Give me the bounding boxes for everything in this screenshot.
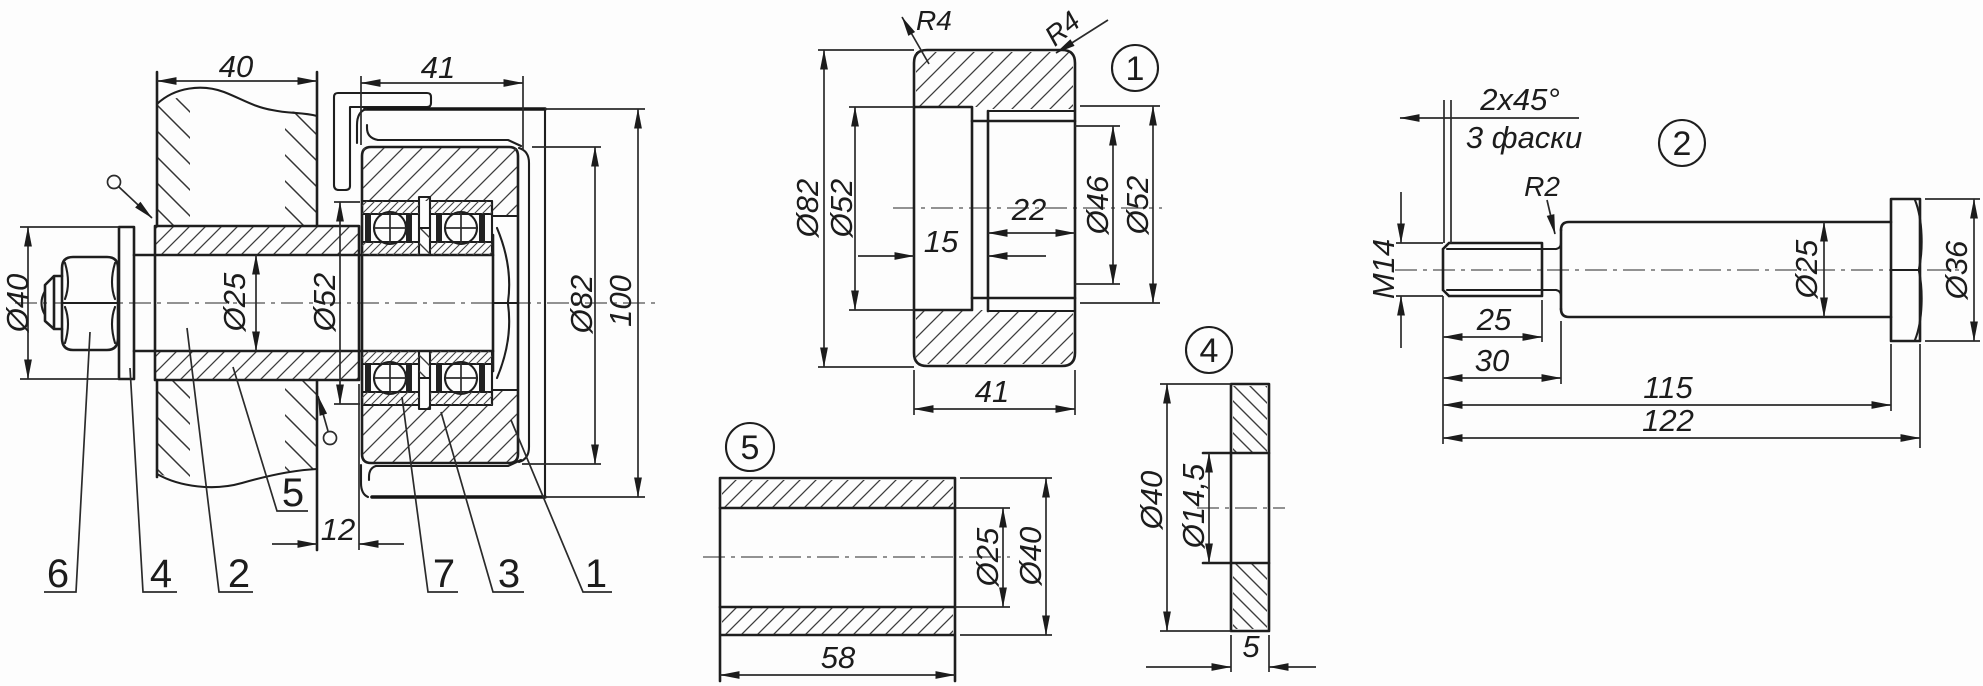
svg-text:25: 25: [1476, 302, 1512, 337]
svg-text:Ø25: Ø25: [217, 272, 252, 332]
bracket hook top left: [334, 93, 431, 190]
part2 thread section outline: [1443, 243, 1542, 296]
part4 dim 5: [1231, 635, 1269, 672]
bearing upper inner race hatch: [362, 242, 419, 255]
part1 dim dia52 left: [849, 107, 914, 310]
svg-text:Ø40: Ø40: [1013, 527, 1048, 587]
part2 dim 115: [1890, 344, 1892, 411]
svg-text:5: 5: [1242, 629, 1260, 664]
part2 dim M14: [1396, 243, 1443, 296]
svg-text:4: 4: [150, 552, 172, 596]
bearing lower inner race hatch: [362, 351, 419, 364]
svg-text:Ø40: Ø40: [0, 274, 35, 334]
part2 shaft outline: [1561, 222, 1891, 317]
nut item6 chamfer arcs: [65, 263, 115, 343]
svg-text:Ø46: Ø46: [1080, 175, 1115, 235]
centerline assembly: [15, 302, 655, 304]
part5 bushing hatch top strip: [722, 480, 953, 508]
svg-text:40: 40: [219, 49, 253, 84]
svg-text:2x45°: 2x45°: [1479, 82, 1560, 117]
bearing lower outer race hatch: [362, 392, 419, 405]
surface mark circle bottom: [324, 432, 337, 445]
dim 40 wall: [157, 80, 317, 82]
part1 R4 callout right: [1056, 20, 1108, 53]
part1 dim dia82: [818, 50, 914, 367]
svg-text:Ø52: Ø52: [307, 273, 342, 333]
wall left edge lower: [156, 380, 159, 477]
roller hatch bottom band: [363, 390, 517, 462]
svg-text:41: 41: [421, 50, 455, 85]
item label 4 washer: [130, 368, 177, 592]
svg-text:5: 5: [741, 429, 760, 467]
svg-text:Ø14,5: Ø14,5: [1176, 463, 1211, 549]
surface mark circle top: [108, 176, 121, 189]
part1 dim dia52 right: [1080, 106, 1160, 303]
part4 bore lines: [1203, 453, 1269, 563]
bracket bottom bend: [361, 465, 376, 497]
part2 thread minor lines: [1447, 249, 1556, 290]
bracket bottom flange top edge: [376, 460, 521, 466]
axle head mid line: [493, 302, 517, 304]
part2 dim dia36: [1925, 199, 1980, 341]
svg-text:3 фаски: 3 фаски: [1466, 120, 1582, 155]
bracket bottom flange bottom edge: [372, 495, 545, 499]
wall break line bottom: [157, 469, 317, 487]
part2 shoulder face: [1560, 230, 1563, 309]
nut item6 mid line: [62, 302, 118, 304]
svg-text:Ø82: Ø82: [790, 179, 825, 239]
svg-text:7: 7: [433, 552, 455, 596]
part2 balloon 2: [1659, 120, 1705, 166]
item label 3 bearing: [441, 412, 524, 592]
part1 roller body hatch bottom: [916, 310, 1073, 364]
part2 dim 30: [1560, 321, 1562, 384]
axle shaft lower line: [134, 350, 493, 353]
part5 dim 58: [720, 674, 955, 676]
wall lower section hatch right band: [285, 380, 317, 472]
wall left edge upper: [156, 72, 159, 226]
svg-text:Ø25: Ø25: [1789, 239, 1824, 299]
bearing upper seals: [365, 215, 371, 241]
part4 washer hatch bottom: [1233, 563, 1267, 629]
part5 bushing hatch bottom strip: [722, 607, 953, 635]
bearing lower outline: [362, 351, 492, 405]
wall upper section hatch right band: [285, 110, 317, 226]
bushing item5 outline: [155, 226, 359, 380]
bearing upper outer race hatch: [362, 201, 419, 214]
part2 dim 25: [1541, 300, 1543, 342]
svg-text:R2: R2: [1524, 171, 1560, 202]
roller outer rim right profile: [519, 148, 529, 462]
svg-text:Ø36: Ø36: [1939, 240, 1974, 300]
axle shaft upper line: [134, 254, 493, 257]
part2 dim 122: [1443, 296, 1920, 448]
part4 dim dia14.5: [1208, 453, 1210, 563]
part2 head mid line: [1891, 269, 1920, 271]
item label 2 axle: [187, 328, 253, 592]
svg-text:2: 2: [228, 552, 250, 596]
svg-text:58: 58: [821, 640, 856, 675]
part1 balloon 1: [1112, 45, 1158, 91]
part2 R2 callout: [1547, 200, 1555, 234]
part5 bore lines: [720, 508, 955, 607]
svg-text:6: 6: [47, 552, 69, 596]
svg-text:Ø25: Ø25: [970, 527, 1005, 587]
svg-text:Ø82: Ø82: [564, 275, 599, 335]
part4 washer outline: [1231, 384, 1269, 631]
wall break line top: [157, 88, 317, 116]
item label 7 spacer: [402, 397, 458, 592]
part2 neck fillet R2: [1556, 243, 1561, 296]
part5 centerline: [703, 556, 1010, 558]
part2 head outline: [1891, 199, 1920, 341]
wall right edge upper: [316, 72, 319, 226]
part2 centerline: [1395, 269, 1960, 271]
dim dia52 bearing: [334, 202, 360, 404]
dim dia40 left: [20, 227, 119, 379]
bracket top flange top edge: [365, 107, 545, 111]
item label 6 nut: [44, 332, 90, 592]
bearing upper outline: [362, 201, 492, 255]
dim 12 bushing protrusion: [358, 384, 360, 550]
svg-text:100: 100: [603, 275, 638, 327]
roller hatch top band: [363, 148, 517, 216]
part5 balloon 5: [726, 423, 774, 471]
part1 dim 41: [914, 370, 1075, 415]
svg-text:1: 1: [585, 552, 607, 596]
axle tip dome: [42, 291, 46, 315]
svg-text:115: 115: [1643, 370, 1693, 405]
part1 dim 22: [988, 232, 1075, 234]
bearing lower balls: [374, 362, 406, 394]
wall upper section hatch left band: [157, 94, 190, 226]
spacer item7 upper: [419, 228, 430, 255]
part5 dim dia40: [960, 478, 1052, 635]
svg-text:5: 5: [282, 471, 304, 515]
part1 dim dia46: [1075, 126, 1120, 284]
dim 100 bracket: [545, 109, 645, 497]
item label 1 roller: [511, 420, 612, 592]
dim 41 roller top: [361, 76, 523, 150]
washer item4: [119, 227, 134, 379]
part1 R4 callout left: [902, 17, 929, 64]
svg-text:M14: M14: [1366, 239, 1401, 299]
bracket top bend: [357, 109, 378, 143]
svg-text:41: 41: [975, 374, 1009, 409]
bearing upper balls: [374, 212, 406, 244]
part5 dim dia25: [955, 508, 1010, 607]
wall lower section hatch left band: [157, 380, 190, 481]
part1 bore dia52 lines: [914, 107, 972, 310]
item label 5 bushing: [233, 367, 308, 511]
roller item1 body outline: [362, 147, 518, 463]
axle head inside roller left face: [492, 235, 495, 371]
svg-text:R4: R4: [916, 5, 952, 36]
svg-text:22: 22: [1011, 192, 1046, 227]
part5 bushing outline: [720, 478, 955, 681]
part4 centerline: [1197, 507, 1285, 509]
bushing item5 hatch bottom strip: [156, 352, 358, 379]
part1 bore dia46 lines: [972, 111, 1075, 311]
svg-text:Ø40: Ø40: [1134, 471, 1169, 531]
svg-text:3: 3: [498, 552, 520, 596]
svg-text:12: 12: [321, 512, 355, 547]
svg-text:30: 30: [1475, 343, 1509, 378]
svg-text:15: 15: [924, 224, 959, 259]
axle head chamfer arcs: [497, 228, 509, 378]
part2 chamfer note leader: [1400, 117, 1579, 119]
part4 washer hatch top: [1233, 386, 1267, 453]
svg-text:4: 4: [1200, 332, 1219, 370]
part4 balloon 4: [1186, 327, 1232, 373]
spacer item7 lower: [419, 351, 430, 378]
roller bore step lines right: [492, 201, 518, 405]
bracket vertical web edge: [544, 109, 546, 497]
part1 roller body hatch top: [916, 52, 1073, 109]
svg-text:122: 122: [1642, 403, 1694, 438]
nut item6 body: [62, 257, 118, 350]
bearing lower seals: [365, 365, 371, 391]
svg-text:Ø52: Ø52: [824, 179, 859, 239]
svg-text:Ø52: Ø52: [1120, 176, 1155, 236]
wall right edge lower: [316, 380, 319, 550]
axle thread tip: [45, 276, 62, 329]
bracket top flange bottom edge: [378, 140, 521, 146]
bushing item5 hatch top strip: [156, 227, 358, 254]
part1 centerline: [893, 207, 1162, 209]
part1 groove light lines: [988, 111, 1074, 311]
svg-text:1: 1: [1126, 50, 1145, 88]
dim dia25 bore: [255, 255, 257, 351]
part1 dim 15: [858, 255, 914, 257]
part2 head chamfer arcs: [1915, 200, 1922, 340]
svg-text:2: 2: [1673, 125, 1692, 163]
part2 chamfer note ext lines: [1444, 100, 1451, 243]
dim dia82 roller: [522, 147, 601, 464]
part1 roller outline rounded: [914, 50, 1075, 366]
part4 dim dia40: [1160, 384, 1231, 631]
part2 dim dia25: [1823, 222, 1825, 317]
